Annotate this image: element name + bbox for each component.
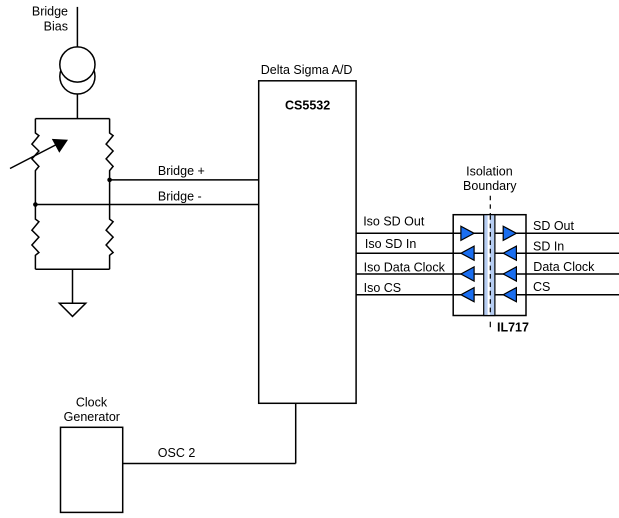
svg-text:Boundary: Boundary xyxy=(463,179,517,193)
svg-text:Isolation: Isolation xyxy=(466,165,513,179)
svg-text:SD Out: SD Out xyxy=(533,219,575,233)
svg-text:Iso SD In: Iso SD In xyxy=(365,237,416,251)
svg-text:Bridge +: Bridge + xyxy=(158,164,205,178)
svg-text:Data Clock: Data Clock xyxy=(533,260,595,274)
svg-text:CS: CS xyxy=(533,280,550,294)
svg-text:Bridge -: Bridge - xyxy=(158,189,202,203)
svg-text:CS5532: CS5532 xyxy=(285,98,330,112)
svg-text:Bridge: Bridge xyxy=(32,4,68,18)
svg-text:Iso SD Out: Iso SD Out xyxy=(363,214,425,228)
svg-text:Bias: Bias xyxy=(44,20,68,34)
svg-text:OSC 2: OSC 2 xyxy=(158,446,196,460)
svg-text:Delta Sigma A/D: Delta Sigma A/D xyxy=(261,63,353,77)
svg-text:Generator: Generator xyxy=(64,410,120,424)
svg-text:Iso Data Clock: Iso Data Clock xyxy=(364,261,446,275)
svg-text:Clock: Clock xyxy=(76,396,108,410)
svg-text:SD In: SD In xyxy=(533,240,564,254)
svg-text:Iso CS: Iso CS xyxy=(364,281,402,295)
svg-text:IL717: IL717 xyxy=(497,321,529,335)
